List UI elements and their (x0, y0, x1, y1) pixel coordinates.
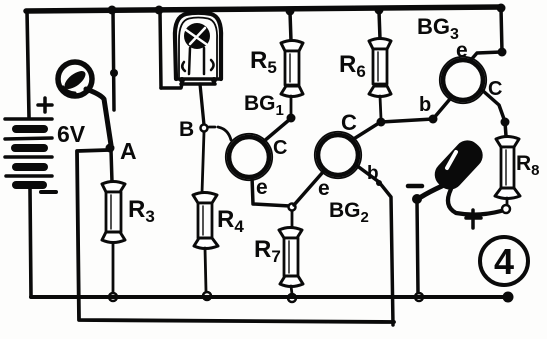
svg-text:6V: 6V (57, 121, 86, 147)
svg-text:R7: R7 (254, 236, 281, 266)
svg-text:e: e (456, 39, 468, 62)
svg-text:R6: R6 (339, 51, 366, 81)
svg-text:e: e (256, 176, 268, 199)
svg-text:C: C (273, 137, 287, 159)
svg-text:BG3: BG3 (417, 14, 459, 43)
svg-text:BG1: BG1 (244, 92, 284, 119)
svg-text:b: b (367, 163, 379, 184)
svg-text:B: B (179, 118, 194, 141)
svg-text:R8: R8 (516, 152, 540, 179)
svg-text:R3: R3 (128, 196, 155, 226)
svg-text:e: e (318, 177, 330, 200)
svg-text:A: A (120, 138, 137, 164)
svg-text:C: C (488, 78, 502, 100)
svg-text:4: 4 (494, 241, 514, 282)
svg-text:C: C (341, 110, 357, 135)
svg-text:R4: R4 (217, 206, 244, 236)
svg-text:b: b (419, 94, 431, 116)
svg-text:BG2: BG2 (329, 199, 369, 226)
svg-text:R5: R5 (250, 47, 277, 77)
